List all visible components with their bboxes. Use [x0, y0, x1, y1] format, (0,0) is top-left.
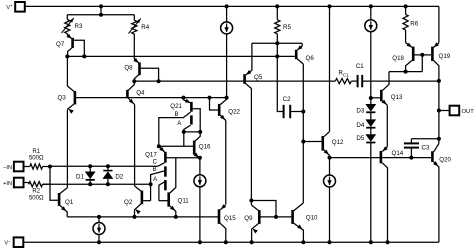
resistor R3 (trimmed)	[62, 15, 83, 34]
wire Q17 collector C to -IN rail	[158, 163, 165, 167]
transistor Q6	[296, 43, 314, 64]
wire C1 to output rail	[362, 80, 439, 82]
transistor Q10	[293, 203, 318, 242]
transistor Q15	[219, 204, 236, 242]
svg-text:C1: C1	[356, 63, 364, 70]
resistor R1 500	[24, 149, 51, 169]
transistor Q11	[159, 158, 189, 217]
node OUT junction	[437, 109, 441, 113]
svg-text:A: A	[177, 121, 181, 127]
svg-text:B: B	[152, 167, 156, 173]
wire Q8 base loop to y81 rail	[141, 68, 159, 81]
node Q7 base junction	[82, 54, 86, 58]
svg-text:Q18: Q18	[392, 55, 404, 62]
wire R4 to Q8 emitter	[133, 34, 135, 59]
svg-text:Q5: Q5	[254, 74, 263, 81]
svg-text:B: B	[174, 112, 178, 118]
svg-text:Q1: Q1	[65, 199, 74, 206]
wire Q21 collector A	[184, 125, 191, 132]
capacitor C2	[283, 96, 304, 118]
node Q9 emitter junction	[250, 240, 254, 244]
wire Q17 collector B to +IN node	[151, 171, 165, 184]
capacitor C1	[356, 63, 364, 88]
wire A down to Q16 base loop	[183, 132, 185, 146]
current source I2 (mid column)	[221, 4, 233, 97]
node Q11 emitter junction	[174, 215, 178, 219]
svg-text:500Ω: 500Ω	[29, 156, 44, 162]
+IN input terminal	[3, 178, 23, 188]
wire Q13 collector header y71.6	[389, 71, 422, 73]
svg-text:Q16: Q16	[199, 143, 211, 150]
node Q4/Q8 collector junction (y81 rail start)	[132, 79, 136, 83]
diode D3	[356, 104, 376, 115]
wire Q4 emitter down to Q2 collector	[134, 105, 136, 186]
transistor Q5	[245, 43, 263, 88]
node Q16 emitter / Q17 base junction	[198, 156, 202, 160]
resistor R2 500	[24, 182, 51, 202]
wire RC1 to C1	[351, 80, 357, 82]
transistor Q14	[381, 146, 404, 242]
wire stub from top rail down to second rail	[99, 4, 103, 16]
V- supply terminal	[4, 237, 23, 247]
node C1 line to output rail	[437, 79, 441, 83]
diode D5	[356, 134, 376, 142]
wire Q7 base to bias rail	[74, 40, 85, 56]
node A junction left	[182, 130, 186, 134]
wire base loop up	[421, 55, 423, 72]
capacitor C3	[404, 139, 430, 158]
svg-text:Q4: Q4	[136, 90, 145, 97]
svg-text:Q6: Q6	[306, 55, 315, 62]
transistor Q2	[124, 186, 151, 217]
OUT output terminal	[439, 106, 474, 116]
wire tail rail y217	[67, 216, 218, 218]
svg-text:Q17: Q17	[145, 151, 157, 158]
node -IN rail / Q1 base junction	[48, 165, 52, 169]
svg-text:R6: R6	[410, 21, 418, 28]
svg-text:R1: R1	[32, 149, 40, 155]
node Q7 collector junction	[65, 54, 69, 58]
node Q18/Q19 base junction	[420, 53, 424, 57]
wire Q9/Q10 base rail	[261, 216, 292, 218]
svg-text:C: C	[153, 160, 158, 166]
node Q14 collector junction	[386, 240, 390, 244]
wire mirror crossover loop	[251, 201, 276, 217]
wire Q5/Q6 emitter header y43	[252, 42, 302, 44]
transistor Q21 (dual collector)	[170, 98, 191, 127]
wire to D3	[370, 98, 372, 104]
current source I4 (Q12 emitter)	[324, 158, 336, 245]
wire V+ top rail	[25, 5, 439, 7]
transistor Q16	[194, 132, 211, 158]
node crossover/base junction	[274, 215, 278, 219]
node C3 to base line	[409, 156, 413, 160]
svg-text:RC1: RC1	[339, 71, 350, 78]
-IN input terminal	[3, 162, 23, 172]
svg-text:R2: R2	[32, 189, 40, 195]
transistor Q8	[124, 58, 139, 81]
wire D4-D5	[370, 128, 372, 134]
svg-text:D1: D1	[76, 173, 84, 180]
node Q15 collector junction	[224, 240, 228, 244]
node R5/C2 column junction	[275, 54, 279, 58]
wire +IN rail	[43, 183, 151, 185]
svg-text:D4: D4	[356, 122, 364, 129]
wire Q13 emitter to Q14	[386, 105, 388, 146]
transistor Q17 (triple collector)	[145, 146, 165, 190]
node A junction right	[198, 130, 202, 134]
svg-text:Q12: Q12	[332, 139, 344, 146]
transistor Q13	[371, 72, 403, 106]
node Q8 base drop junction	[157, 79, 161, 83]
svg-text:Q22: Q22	[228, 108, 240, 115]
svg-text:Q3: Q3	[58, 95, 67, 102]
svg-text:−IN: −IN	[3, 165, 12, 171]
node Q2 emitter junction	[133, 215, 137, 219]
svg-text:C2: C2	[283, 96, 291, 103]
svg-text:Q10: Q10	[306, 215, 318, 222]
transistor Q3	[58, 86, 75, 114]
wire Q17 collector A to Q11 base	[159, 182, 165, 201]
wire second rail feeding R3 and R4	[67, 14, 134, 16]
resistor R4 (trimmed)	[129, 15, 150, 34]
current source I3 (gain stage)	[194, 158, 206, 244]
svg-text:Q9: Q9	[244, 215, 253, 222]
node C3/OUT line junction	[437, 137, 441, 141]
wire R5 column down to C2	[277, 43, 283, 111]
resistor R5	[275, 4, 292, 33]
svg-text:Q11: Q11	[178, 198, 190, 205]
wire +IN node down to Q2 base	[150, 184, 152, 201]
node Q18 collector junction	[404, 70, 408, 74]
wire D3-D4	[370, 113, 372, 120]
wire Q16 base horizontal	[159, 145, 193, 147]
wire Q22 emitter down to Q15	[225, 121, 227, 205]
svg-text:A: A	[153, 177, 157, 183]
wire Q21 base loop	[193, 109, 201, 132]
wire base rail y97	[76, 97, 227, 99]
svg-text:D3: D3	[356, 108, 364, 115]
svg-text:R5: R5	[283, 24, 291, 31]
current source I5 (bias column)	[365, 4, 377, 98]
wire V- bottom rail	[23, 241, 439, 243]
wire OUT-C3 line	[411, 138, 439, 140]
svg-text:D5: D5	[356, 135, 364, 142]
node R5/emitter-wire junction	[275, 41, 279, 45]
node C2 to Q6 collector line	[301, 110, 305, 114]
svg-text:500Ω: 500Ω	[29, 195, 44, 201]
node Q12 base junction	[301, 140, 305, 144]
transistor Q1	[50, 167, 74, 217]
wire R5 bottom to emitter wire	[276, 34, 278, 44]
svg-text:D2: D2	[115, 174, 123, 181]
transistor Q7	[56, 34, 73, 57]
diode D4	[356, 119, 376, 129]
svg-text:R3: R3	[75, 23, 83, 30]
node Q12 emitter junction	[328, 156, 332, 160]
node Q13 base junction	[369, 96, 373, 100]
diode D2 (reversed)	[103, 164, 124, 186]
wire Q3 emitter down to Q1 collector	[66, 109, 68, 187]
diode D1	[76, 164, 96, 186]
wire Q7 to Q3 collector	[66, 56, 68, 86]
wire Q5 collector down to Q9	[250, 89, 252, 201]
svg-text:Q8: Q8	[124, 64, 133, 71]
svg-text:Q20: Q20	[439, 157, 451, 164]
wire bias rail y56	[67, 55, 295, 57]
transistor Q19	[432, 42, 450, 81]
node base rail / current source junction	[225, 96, 229, 100]
svg-text:R4: R4	[141, 24, 149, 31]
transistor Q20	[432, 144, 451, 243]
wire Q6 collector column	[302, 64, 304, 203]
resistor R6	[403, 4, 419, 30]
wire Q21 collector B to Q17 emitter	[159, 112, 191, 146]
svg-text:Q14: Q14	[392, 150, 404, 157]
wire Q14/Q20 base line	[330, 157, 433, 159]
transistor Q22	[208, 96, 241, 121]
transistor Q9	[244, 201, 259, 243]
transistor Q4	[127, 81, 145, 104]
wire -IN rail	[50, 165, 158, 167]
svg-text:Q7: Q7	[56, 41, 65, 48]
wire compensation rail y81	[134, 80, 335, 82]
wire top rail right corner down to Q19 emitter	[438, 6, 440, 42]
wire D5 to V- rail	[369, 143, 373, 244]
svg-text:+IN: +IN	[3, 181, 12, 187]
wire A to Q16 collector	[184, 131, 200, 133]
svg-text:Q2: Q2	[124, 199, 133, 206]
wire Q12 collector to top rail	[328, 4, 332, 131]
wire Q17 base rail	[167, 157, 200, 159]
wire output rail	[438, 81, 440, 144]
svg-text:Q13: Q13	[391, 94, 403, 101]
svg-text:Q15: Q15	[224, 215, 236, 222]
node Q21 emitter junction	[181, 96, 185, 100]
resistor RC1	[335, 71, 351, 84]
transistor Q18	[392, 30, 431, 72]
current source I1 (tail)	[93, 215, 105, 244]
node +IN junction	[149, 182, 153, 186]
V+ supply terminal	[6, 2, 24, 12]
svg-text:Q19: Q19	[439, 53, 451, 60]
node Q10 emitter junction	[301, 240, 305, 244]
svg-text:Q21: Q21	[170, 103, 182, 110]
svg-text:C3: C3	[422, 144, 430, 151]
node Q9 collector junction	[249, 199, 253, 203]
transistor Q12	[303, 132, 344, 158]
node Q17 emitter junction	[157, 144, 161, 148]
svg-text:OUT: OUT	[462, 109, 474, 115]
